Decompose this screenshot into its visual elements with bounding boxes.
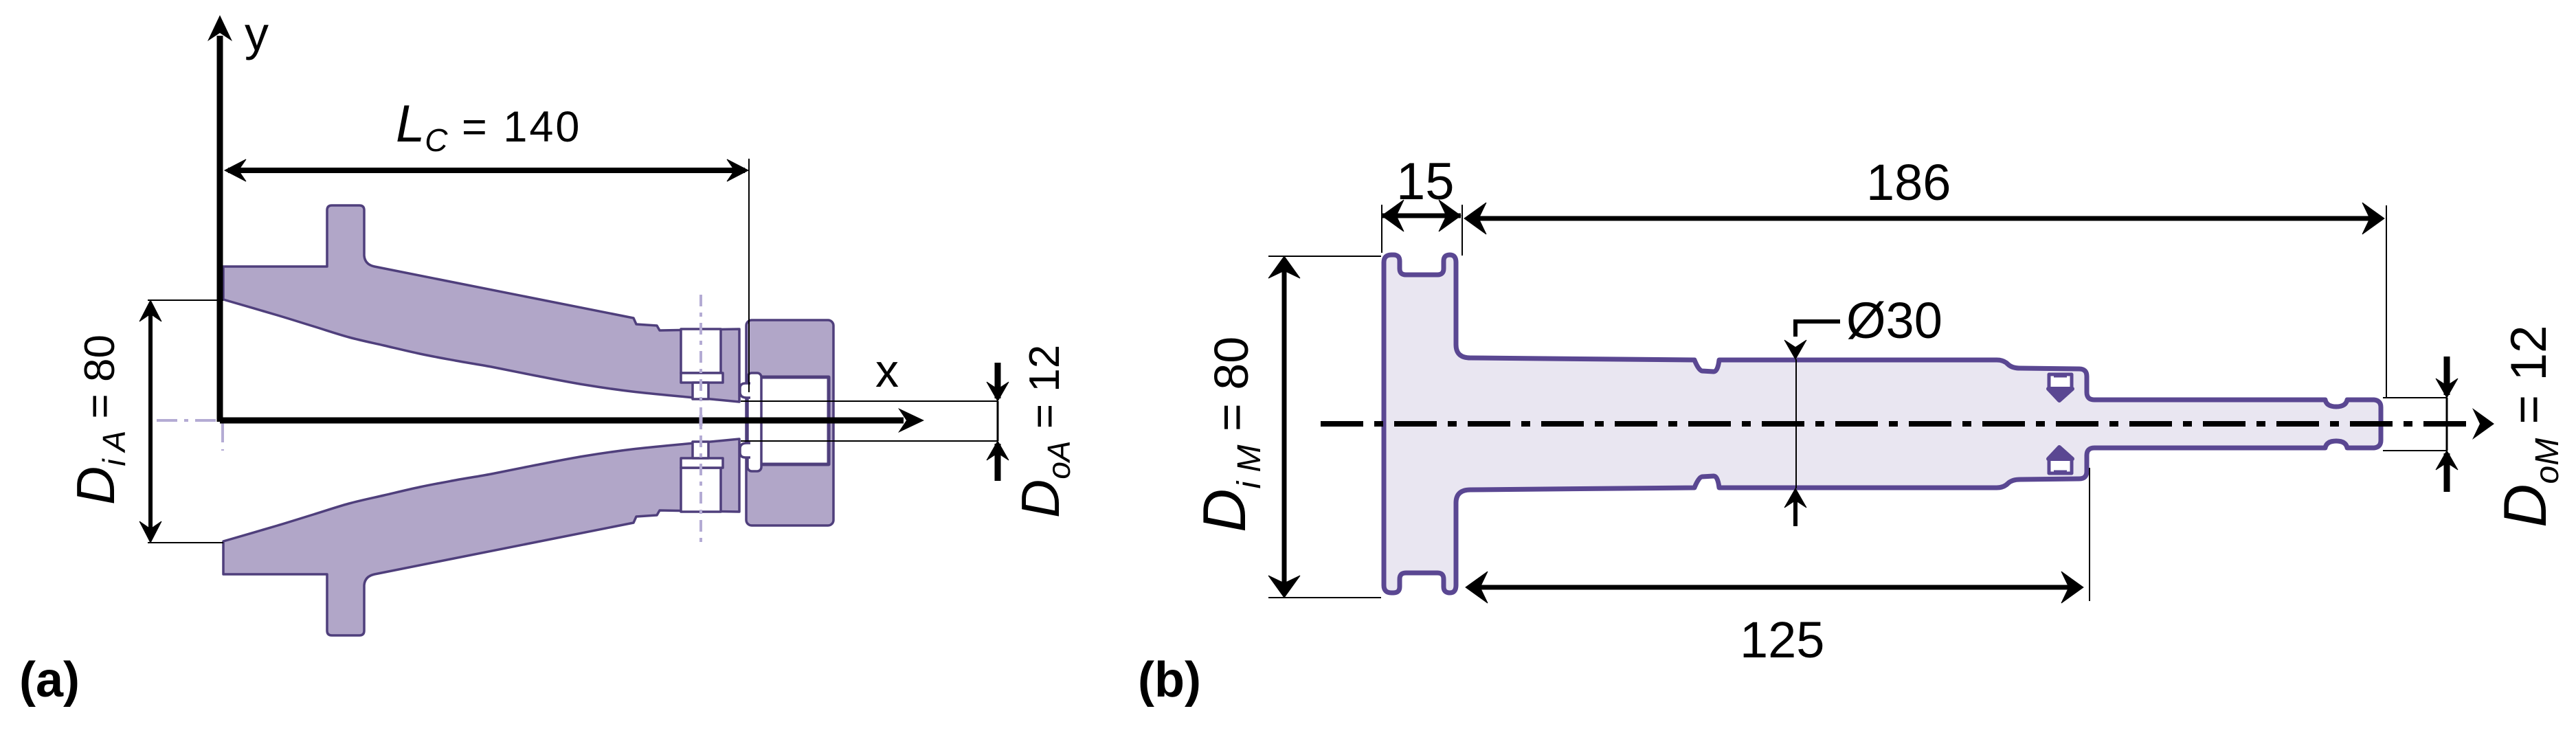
D_iA arrow: [139, 300, 161, 543]
bolt centerline: [699, 295, 702, 547]
D_oM arrows: [2436, 357, 2458, 492]
horizontal centerline stub (a): [157, 419, 221, 422]
bolt centerline dot: [699, 415, 703, 426]
bolt washer: [681, 373, 723, 383]
svg-text:x: x: [875, 345, 899, 397]
collar tick lower: [2054, 471, 2067, 474]
horn upper wall (a): [223, 205, 739, 402]
D_oM extensions: [2383, 398, 2448, 451]
svg-text:(b): (b): [1138, 653, 1201, 708]
D_iM extensions: [1268, 256, 1381, 598]
svg-text:15: 15: [1396, 152, 1455, 211]
bolt counterbore: [681, 468, 721, 512]
dim 15: [1382, 200, 1461, 231]
collar notch upper: [2049, 374, 2072, 389]
D_iA extension lines: [148, 300, 223, 543]
block bore: [759, 377, 829, 464]
svg-text:186: 186: [1866, 154, 1951, 211]
centerline (b): [1321, 421, 2471, 427]
upper bolt hole: [681, 329, 723, 399]
svg-text:Ø30: Ø30: [1846, 292, 1942, 349]
bolt washer: [681, 458, 723, 468]
D_oA arrows: [987, 363, 1009, 481]
horn lower wall (a): [223, 439, 739, 635]
svg-text:y: y: [245, 7, 269, 60]
dim 186 extension: [2386, 205, 2387, 398]
svg-text:DoM = 12: DoM = 12: [2491, 325, 2566, 528]
D_iM arrow: [1268, 256, 1300, 598]
svg-text:LC = 140: LC = 140: [396, 95, 581, 158]
x axis: [220, 418, 904, 424]
dim 125 extension: [2089, 468, 2090, 601]
collar V upper: [2048, 389, 2072, 400]
dia30 leader: [1784, 321, 1840, 526]
dim 125: [1466, 572, 2083, 603]
collar tick upper: [2054, 374, 2067, 378]
svg-text:125: 125: [1740, 611, 1824, 668]
collar V lower: [2048, 447, 2072, 459]
tip plate: [748, 373, 761, 471]
lower bolt hole: [681, 442, 723, 512]
lower ear: [740, 443, 750, 457]
bolt counterbore: [681, 329, 721, 373]
bolt shank slot: [693, 383, 708, 399]
upper ear: [740, 383, 750, 398]
svg-text:(a): (a): [19, 653, 80, 708]
L_C extension line: [748, 159, 750, 392]
y axis: [217, 36, 223, 422]
machined horn body (b): [1384, 255, 2381, 593]
collar notch lower: [2049, 458, 2072, 473]
bolt shank slot: [693, 442, 708, 458]
L_C dimension line: [225, 159, 748, 181]
dim 15 extensions: [1382, 205, 1462, 256]
mounting block (a): [746, 320, 833, 525]
dim 186: [1464, 203, 2384, 234]
D_oA extension lines: [741, 401, 998, 441]
left face centerline stub: [221, 422, 224, 451]
